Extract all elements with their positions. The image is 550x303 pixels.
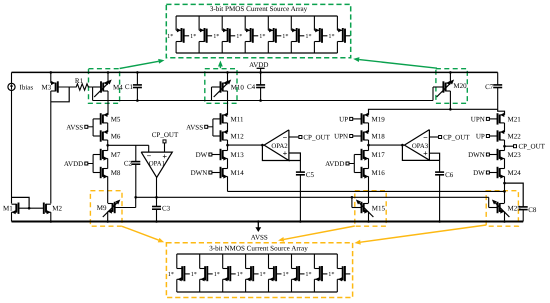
svg-text:AVSS: AVSS (186, 123, 203, 131)
svg-text:AVSS: AVSS (66, 123, 83, 131)
green arrow M20 box to PMOS array (353, 57, 437, 68)
svg-text:C3: C3 (162, 204, 171, 212)
PMOS array bottom bus (176, 52, 337, 54)
svg-text:DWN: DWN (468, 151, 485, 159)
M14 source down to mirror rail (227, 177, 229, 192)
svg-text:1*: 1* (328, 33, 334, 40)
svg-text:C4: C4 (247, 83, 256, 91)
svg-text:C5: C5 (306, 171, 315, 179)
svg-text:M7: M7 (111, 151, 121, 159)
node A wire M6-M7 (106, 140, 109, 151)
OPA3 feedback loop (402, 145, 439, 160)
svg-text:M15: M15 (372, 204, 386, 212)
svg-text:−: − (147, 152, 152, 161)
PMOS array unit cell 8 (1*) (328, 16, 350, 53)
svg-text:M6: M6 (111, 133, 121, 141)
capacitor C4 with AVDD stub (247, 71, 265, 102)
green arrow M4 box to PMOS array (120, 59, 165, 69)
svg-text:1*: 1* (328, 271, 334, 278)
orange arrow M25 box to NMOS array (355, 225, 487, 245)
orange dashed box around M9 (90, 191, 122, 227)
svg-text:M12: M12 (231, 133, 245, 141)
svg-text:M19: M19 (372, 115, 386, 123)
svg-text:+: + (283, 149, 288, 158)
NMOS bias gate rail (136, 196, 489, 198)
svg-text:M17: M17 (372, 151, 386, 159)
svg-text:DWN: DWN (191, 169, 208, 177)
OPA3 non-inverting wire (429, 153, 439, 160)
svg-text:DW: DW (473, 169, 485, 177)
svg-text:CP_OUT: CP_OUT (443, 134, 470, 142)
M17/M16 gate riser and AVDD port (325, 155, 354, 173)
transistor M5 (93, 113, 121, 125)
NMOS array unit cell 8 (1*) (328, 254, 350, 292)
svg-text:M5: M5 (111, 115, 121, 123)
OPA2 output wire to M12/M13 node (228, 144, 265, 147)
NMOS array top bus (177, 253, 337, 255)
M1 source to AVSS (11, 212, 13, 221)
svg-text:+: + (423, 149, 428, 158)
svg-text:C6: C6 (445, 171, 454, 179)
svg-text:C8: C8 (528, 206, 537, 214)
transistor M24 with DW port (473, 167, 521, 179)
resistor R1 (75, 77, 93, 90)
PMOS bias gate rail (93, 100, 433, 102)
op-amp OPA1 (141, 152, 172, 178)
svg-text:1*: 1* (259, 33, 265, 40)
CP_OUT port right (505, 143, 546, 151)
M10 drain to M11 (227, 91, 229, 115)
svg-text:M18: M18 (372, 133, 386, 141)
svg-text:1*: 1* (283, 271, 289, 278)
NMOS array unit cell 1 (1*) (168, 254, 190, 292)
svg-text:M16: M16 (372, 169, 386, 177)
svg-text:M3: M3 (42, 84, 52, 92)
OPA1 inverting input wire from node A (108, 145, 149, 152)
M20 gate riser to bias rail (432, 87, 434, 101)
svg-text:M2: M2 (52, 205, 62, 213)
svg-text:AVSS: AVSS (251, 233, 268, 241)
svg-text:OPA1: OPA1 (149, 161, 165, 168)
PMOS array unit cell 1 (1*) (167, 16, 189, 53)
svg-text:1*: 1* (236, 33, 242, 40)
capacitor C3 (152, 204, 171, 222)
capacitor C5 (296, 161, 315, 223)
svg-text:C7: C7 (485, 83, 494, 91)
svg-text:M25: M25 (508, 204, 522, 212)
capacitor C8 (519, 206, 537, 222)
M15 gate riser to NMOS bias rail (351, 196, 354, 208)
trimmable transistor M15 (352, 200, 386, 218)
M22-M23 wire with CP_OUT tap (503, 140, 506, 151)
svg-text:3-bit PMOS Current Source Arra: 3-bit PMOS Current Source Array (210, 5, 308, 13)
svg-text:−: − (283, 133, 288, 142)
trimmable transistor M25 (489, 200, 522, 218)
svg-text:M9: M9 (97, 204, 107, 212)
NMOS array unit cell 5 (1*) (260, 254, 282, 292)
NMOS array unit cell 2 (1*) (191, 254, 213, 292)
M17-M16 wire (368, 159, 370, 169)
M11-M12 wire (227, 123, 229, 132)
svg-text:+: + (162, 152, 167, 161)
svg-text:3-bit NMOS Current Source Arra: 3-bit NMOS Current Source Array (209, 245, 308, 253)
svg-text:M21: M21 (508, 115, 522, 123)
capacitor C2 (124, 145, 140, 197)
AVSS rail label with down arrow (251, 220, 268, 241)
trimmable transistor M4 (93, 71, 124, 97)
svg-text:M4: M4 (113, 84, 123, 92)
PMOS array title (210, 5, 308, 13)
svg-text:1*: 1* (260, 271, 266, 278)
op-amp OPA3 (404, 130, 429, 161)
M4 drain wire down to M5 (107, 91, 109, 115)
svg-text:M23: M23 (508, 151, 522, 159)
transistor M22 with UP port (476, 130, 521, 142)
svg-text:UP: UP (476, 133, 485, 141)
OPA2 non-inverting wire (289, 153, 301, 161)
M25 gate riser to NMOS bias rail (488, 197, 490, 207)
green dashed box around M4 (89, 69, 120, 104)
left edge wire from AVDD rail to M1 (11, 72, 13, 203)
NMOS array title (209, 244, 309, 253)
M21-M22 wire (504, 123, 506, 132)
svg-text:1*: 1* (305, 271, 311, 278)
svg-text:M20: M20 (453, 82, 467, 90)
transistor M12 (213, 130, 244, 142)
orange dashed box around M15 (355, 191, 386, 227)
NMOS array unit cell 4 (1*) (237, 254, 259, 292)
M20 drain down to source rail (449, 91, 452, 111)
PMOS array unit cell 2 (1*) (190, 16, 212, 53)
3-bit PMOS current source array dashed box (166, 4, 350, 57)
op-amp OPA2 (264, 130, 289, 161)
orange arrow M15 box to NMOS array (278, 226, 355, 242)
transistor M1 (diode-connected NMOS) (3, 203, 44, 215)
jog from C7 rail to M21 (498, 109, 505, 115)
green arrow M10 box to PMOS array (218, 61, 223, 69)
OPA2 inverting CP_OUT port (289, 134, 331, 142)
svg-text:UPN: UPN (334, 133, 348, 141)
PMOS array unit cell 6 (1*) (282, 16, 304, 53)
NMOS array unit cell 7 (1*) (305, 254, 327, 292)
svg-text:UPN: UPN (471, 115, 485, 123)
current source Ibias (8, 83, 33, 91)
capacitor C7 (485, 72, 502, 109)
AVDD label and stub (249, 61, 268, 72)
AVSS bottom rail (12, 221, 524, 223)
M18-M17 wire with OPA3 output node (367, 140, 370, 151)
M23-M24 wire (504, 159, 506, 169)
svg-text:M11: M11 (231, 115, 244, 123)
svg-text:M8: M8 (111, 169, 121, 177)
OPA3 output wire to M18/M17 node (369, 144, 405, 147)
transistor M19 with UP port (339, 113, 385, 125)
svg-text:M13: M13 (231, 151, 245, 159)
svg-text:DW: DW (196, 151, 208, 159)
NMOS mirror drain rail (228, 190, 505, 192)
transistor M6 (93, 130, 121, 142)
M24 source down to M25 drain (503, 177, 506, 204)
M16 source down to M15 drain (368, 177, 370, 204)
svg-text:CP_OUT: CP_OUT (152, 131, 179, 139)
svg-text:M14: M14 (231, 169, 245, 177)
svg-text:M24: M24 (508, 169, 522, 177)
M19-M18 wire (368, 123, 370, 132)
M15 source to AVSS (367, 212, 370, 223)
svg-text:1*: 1* (237, 271, 243, 278)
AVDD top rail (12, 71, 498, 73)
PMOS array unit cell 7 (1*) (305, 16, 327, 53)
svg-text:1*: 1* (305, 33, 311, 40)
transistor M16 (354, 167, 385, 179)
transistor M11 (213, 113, 244, 125)
M7-M8 wire (107, 159, 109, 169)
trimmable transistor M9 (97, 200, 136, 218)
transistor M23 with DWN port (468, 149, 521, 161)
OPA3 inverting CP_OUT port (429, 134, 470, 142)
M19 source rail corner (369, 109, 498, 115)
NMOS array bottom bus (177, 291, 337, 293)
transistor M7 (93, 149, 121, 161)
PMOS array unit cell 4 (1*) (236, 16, 258, 53)
trimmable transistor M20 (433, 71, 467, 97)
transistor M17 (354, 149, 385, 161)
M5/M6 gate riser and AVSS port (66, 119, 93, 136)
trimmable transistor M10 (212, 71, 245, 97)
M3 drain wire down to M2 (50, 91, 52, 204)
svg-text:AVDD: AVDD (64, 160, 83, 168)
green dashed box around M20 (436, 69, 467, 104)
svg-text:M1: M1 (3, 205, 13, 213)
M8 to M9 wire (107, 177, 109, 204)
M12-M13 wire with OPA2 output node (226, 140, 229, 151)
M3 gate-drain loop (51, 87, 69, 102)
orange arrow M9 box to NMOS array (122, 226, 164, 242)
svg-text:R1: R1 (75, 77, 84, 85)
OPA2 feedback loop (262, 145, 300, 160)
NMOS array unit cell 6 (1*) (283, 254, 305, 292)
M13-M14 wire (227, 159, 229, 169)
transistor M8 (93, 167, 121, 179)
svg-text:C2: C2 (124, 159, 133, 167)
M4 gate riser to bias rail (92, 87, 94, 101)
transistor M14 with DWN port (191, 167, 245, 179)
svg-text:1*: 1* (282, 33, 288, 40)
svg-text:−: − (423, 133, 428, 142)
svg-text:1*: 1* (190, 33, 196, 40)
svg-text:1*: 1* (191, 271, 197, 278)
PMOS array unit cell 3 (1*) (213, 16, 235, 53)
transistor M21 with UPN port (471, 113, 521, 125)
M11/M12 gate riser and AVSS port (186, 119, 213, 136)
svg-text:1*: 1* (213, 33, 219, 40)
svg-text:1*: 1* (214, 271, 220, 278)
NMOS array unit cell 3 (1*) (214, 254, 236, 292)
transistor M13 with DW port (196, 149, 245, 161)
svg-text:C1: C1 (125, 83, 134, 91)
svg-text:Ibias: Ibias (20, 83, 34, 91)
M2 source to AVSS (50, 212, 53, 223)
transistor M3 (diode-connected PMOS) (42, 71, 75, 93)
orange dashed box around M25 (486, 191, 518, 227)
M25 source to AVSS (503, 212, 506, 223)
branch wire to C8 (505, 183, 524, 207)
transistor M2 (44, 203, 63, 215)
svg-text:CP_OUT: CP_OUT (303, 134, 330, 142)
M7/M8 gate riser and AVDD port (64, 155, 93, 173)
OPA1 non-inverting input CP_OUT port (152, 131, 179, 152)
svg-text:CP_OUT: CP_OUT (519, 143, 546, 151)
3-bit NMOS current source array dashed box (166, 243, 352, 298)
green dashed box around M10 (205, 69, 237, 104)
svg-text:AVDD: AVDD (325, 160, 344, 168)
svg-text:M22: M22 (508, 133, 522, 141)
M10 gate riser to bias rail (211, 87, 213, 101)
M9 source to AVSS (106, 212, 109, 223)
svg-text:M10: M10 (231, 84, 245, 92)
svg-text:1*: 1* (167, 33, 173, 40)
M1 gate-drain loop (12, 197, 31, 209)
svg-text:UP: UP (339, 115, 348, 123)
M5-M6 wire (107, 123, 109, 132)
svg-text:1*: 1* (168, 271, 174, 278)
PMOS array top bus (176, 15, 337, 17)
OPA1 output wire to NMOS bias rail (155, 178, 158, 207)
transistor M18 with UPN port (334, 130, 385, 142)
capacitor C1 (125, 71, 142, 102)
capacitor C6 (435, 160, 454, 222)
M9 gate riser / C2 junction (134, 196, 137, 208)
PMOS array unit cell 5 (1*) (259, 16, 281, 53)
